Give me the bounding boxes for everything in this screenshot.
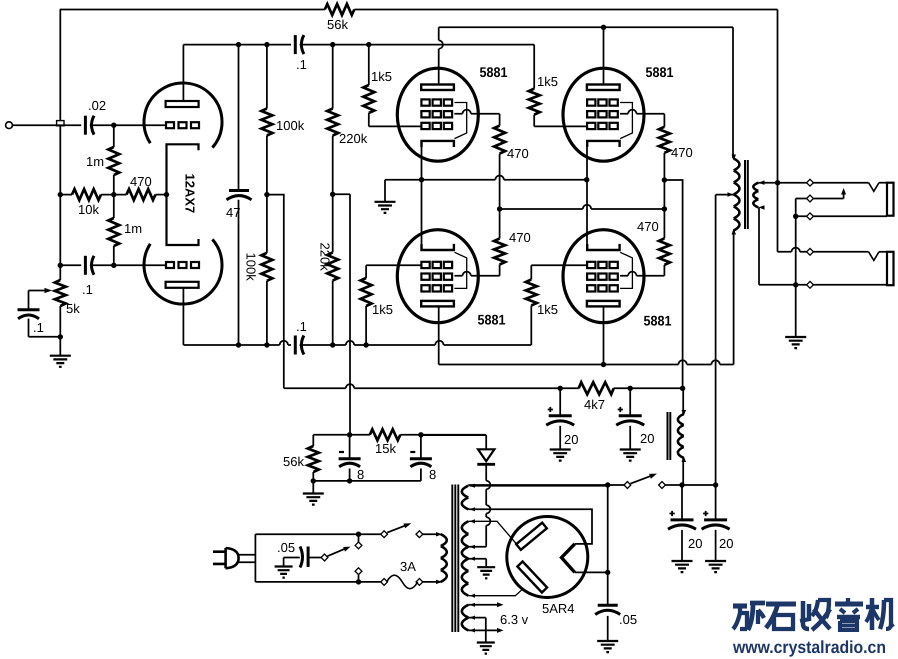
svg-text:.05: .05	[277, 540, 295, 555]
svg-text:20: 20	[688, 536, 702, 551]
svg-text:1k5: 1k5	[371, 69, 392, 84]
svg-text:47: 47	[226, 205, 240, 220]
svg-text:www.crystalradio.cn: www.crystalradio.cn	[732, 637, 886, 657]
svg-text:.02: .02	[88, 98, 106, 113]
svg-text:5AR4: 5AR4	[542, 601, 575, 616]
svg-text:100k: 100k	[244, 253, 259, 282]
svg-text:5881: 5881	[480, 64, 508, 80]
svg-text:6.3 v: 6.3 v	[500, 612, 529, 627]
svg-text:1k5: 1k5	[372, 302, 393, 317]
svg-text:15k: 15k	[375, 441, 396, 456]
svg-text:.1: .1	[82, 282, 93, 297]
svg-text:470: 470	[130, 174, 152, 189]
svg-text:10k: 10k	[78, 202, 99, 217]
svg-text:1k5: 1k5	[537, 74, 558, 89]
svg-text:470: 470	[507, 146, 529, 161]
svg-text:.05: .05	[619, 612, 637, 627]
svg-text:20: 20	[564, 432, 578, 447]
svg-text:56k: 56k	[283, 454, 304, 469]
svg-text:1m: 1m	[86, 154, 104, 169]
svg-text:3A: 3A	[400, 559, 416, 574]
svg-text:5881: 5881	[644, 313, 672, 329]
svg-text:56k: 56k	[327, 17, 348, 32]
svg-text:20: 20	[719, 536, 733, 551]
svg-text:470: 470	[509, 230, 531, 245]
svg-text:5k: 5k	[66, 301, 80, 316]
svg-text:1m: 1m	[124, 221, 142, 236]
svg-text:220k: 220k	[318, 243, 333, 272]
svg-text:.1: .1	[296, 57, 307, 72]
svg-text:20: 20	[640, 431, 654, 446]
svg-text:220k: 220k	[339, 131, 368, 146]
svg-text:.1: .1	[33, 320, 44, 335]
svg-text:8: 8	[429, 467, 436, 482]
svg-text:100k: 100k	[276, 118, 305, 133]
svg-text:5881: 5881	[646, 64, 674, 80]
svg-text:470: 470	[637, 219, 659, 234]
svg-text:.1: .1	[296, 319, 307, 334]
svg-text:8: 8	[357, 467, 364, 482]
svg-text:4k7: 4k7	[584, 397, 605, 412]
svg-text:1k5: 1k5	[537, 302, 558, 317]
svg-text:470: 470	[671, 145, 693, 160]
svg-text:12AX7: 12AX7	[183, 174, 198, 214]
svg-text:5881: 5881	[478, 312, 506, 328]
